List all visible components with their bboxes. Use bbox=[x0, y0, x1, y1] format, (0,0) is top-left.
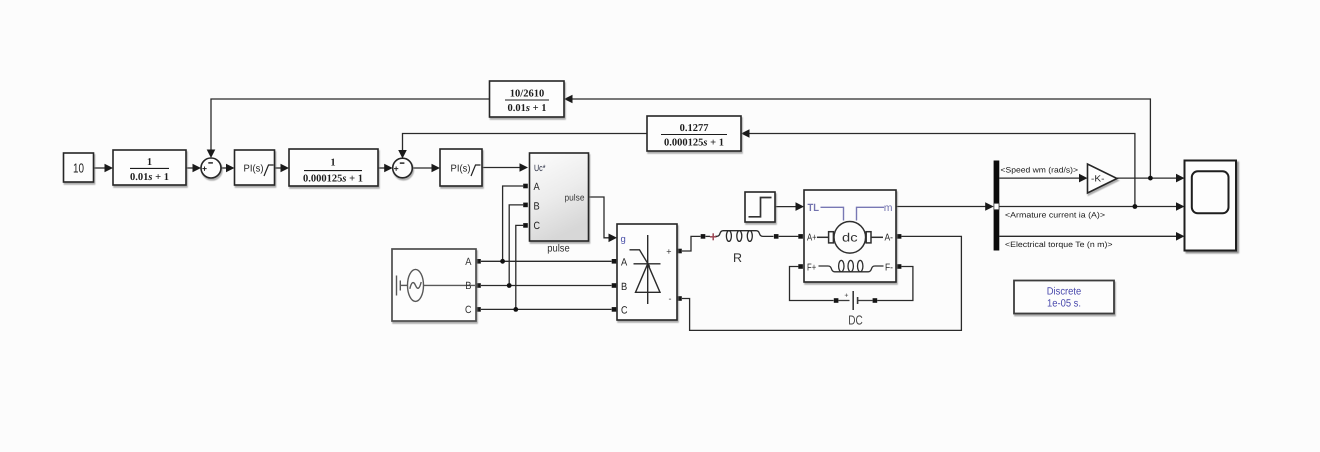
svg-text:0.000125s + 1: 0.000125s + 1 bbox=[303, 174, 363, 185]
svg-text:<Electrical torque Te (n m)>: <Electrical torque Te (n m)> bbox=[1005, 240, 1113, 249]
svg-text:+: + bbox=[666, 246, 671, 256]
svg-text:0.01s + 1: 0.01s + 1 bbox=[508, 103, 547, 114]
svg-text:0.000125s + 1: 0.000125s + 1 bbox=[664, 138, 724, 149]
svg-text:<Armature current ia (A)>: <Armature current ia (A)> bbox=[1005, 211, 1105, 220]
svg-text:PI(s): PI(s) bbox=[244, 164, 264, 175]
svg-text:+: + bbox=[844, 293, 848, 300]
svg-text:A: A bbox=[465, 256, 471, 268]
svg-text:pulse: pulse bbox=[565, 192, 585, 202]
svg-text:DC: DC bbox=[848, 313, 863, 328]
svg-text:F+: F+ bbox=[807, 262, 816, 273]
svg-text:C: C bbox=[465, 304, 472, 316]
svg-text:-K-: -K- bbox=[1091, 174, 1105, 184]
svg-text:<Speed wm (rad/s)>: <Speed wm (rad/s)> bbox=[1001, 166, 1079, 175]
svg-text:+: + bbox=[202, 163, 207, 173]
svg-text:10/2610: 10/2610 bbox=[510, 89, 544, 100]
svg-text:B: B bbox=[534, 201, 540, 213]
svg-text:A: A bbox=[534, 181, 540, 193]
svg-text:R: R bbox=[733, 251, 742, 265]
svg-text:A: A bbox=[621, 257, 627, 269]
svg-text:+: + bbox=[394, 163, 399, 173]
svg-text:F-: F- bbox=[885, 262, 893, 273]
svg-text:dc: dc bbox=[842, 231, 858, 245]
svg-text:g: g bbox=[621, 234, 626, 245]
svg-text:PI(s): PI(s) bbox=[451, 164, 471, 175]
svg-text:1e-05 s.: 1e-05 s. bbox=[1047, 298, 1081, 310]
svg-text:10: 10 bbox=[73, 160, 84, 175]
svg-text:TL: TL bbox=[808, 202, 820, 214]
svg-text:A+: A+ bbox=[807, 232, 817, 243]
svg-text:B: B bbox=[465, 280, 471, 292]
svg-text:1: 1 bbox=[147, 157, 152, 168]
svg-text:A-: A- bbox=[885, 232, 894, 243]
svg-text:Discrete: Discrete bbox=[1047, 286, 1082, 298]
svg-text:B: B bbox=[621, 281, 627, 293]
svg-text:Uc*: Uc* bbox=[534, 163, 546, 173]
svg-text:-: - bbox=[669, 293, 672, 303]
svg-text:C: C bbox=[621, 305, 628, 317]
svg-text:C: C bbox=[534, 220, 541, 232]
svg-text:0.1277: 0.1277 bbox=[680, 123, 709, 134]
svg-text:pulse: pulse bbox=[547, 243, 570, 255]
svg-text:1: 1 bbox=[330, 158, 335, 169]
svg-text:m: m bbox=[884, 202, 893, 214]
svg-text:0.01s + 1: 0.01s + 1 bbox=[130, 172, 169, 183]
